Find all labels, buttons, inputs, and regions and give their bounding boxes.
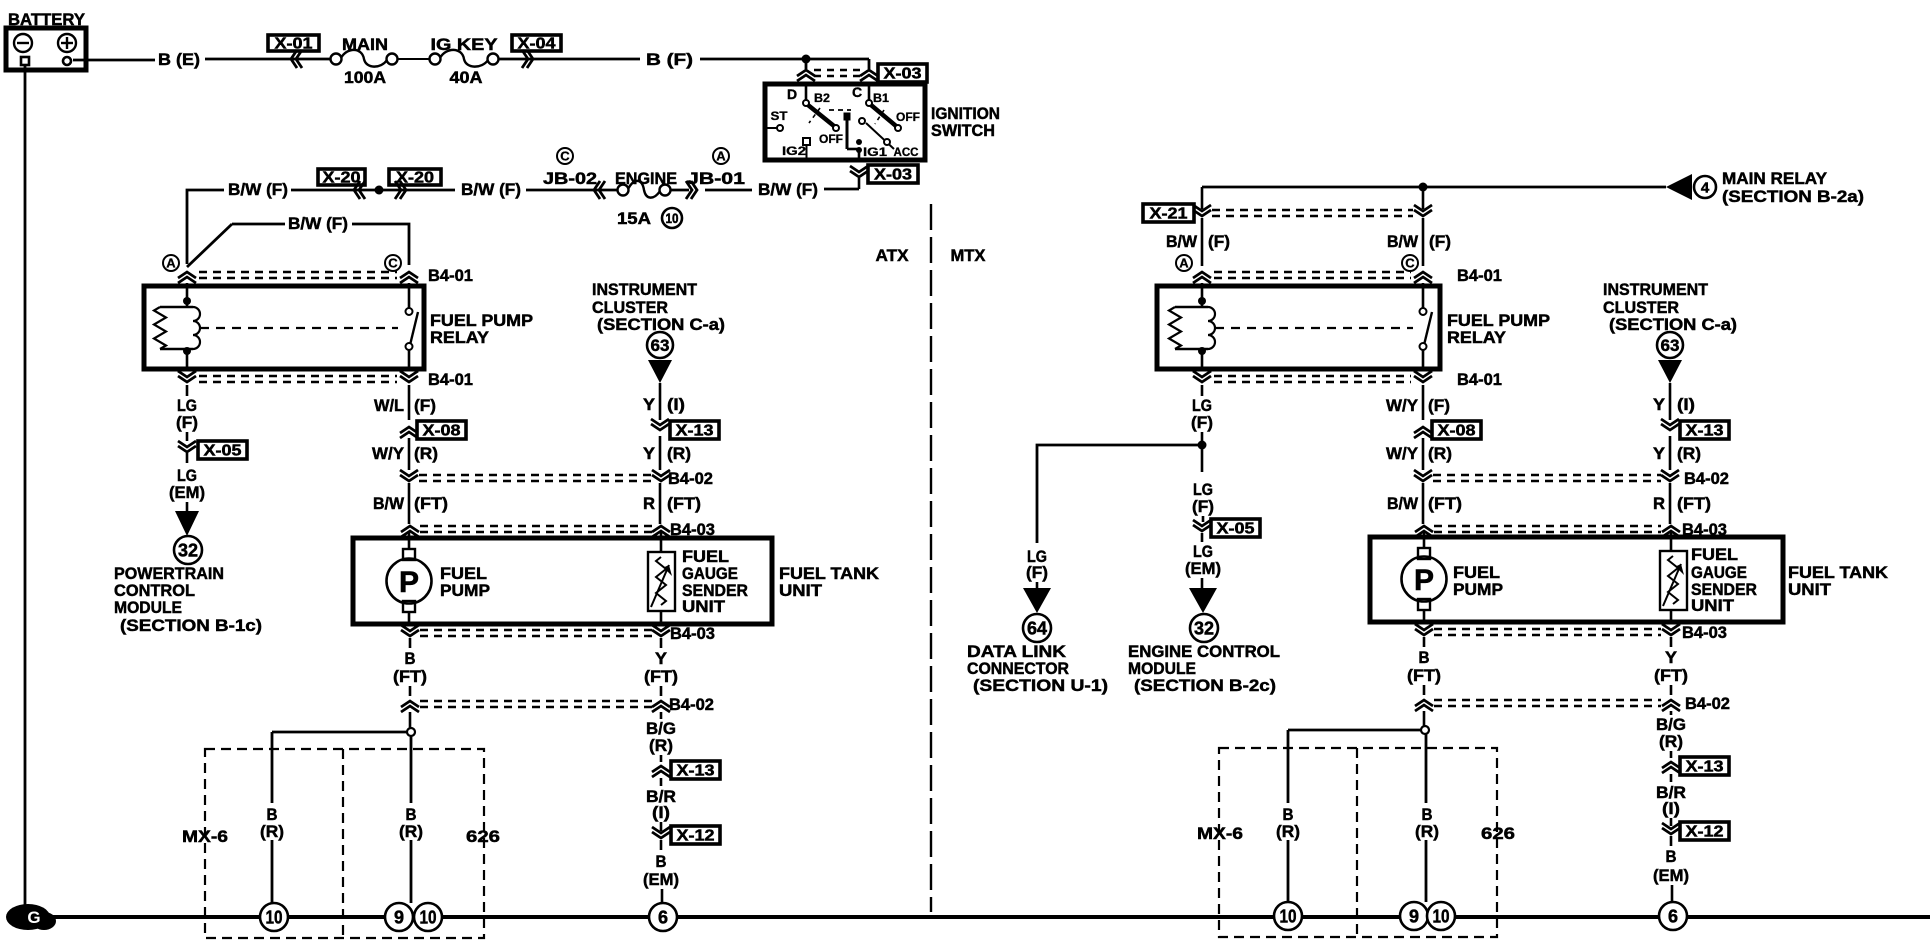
svg-text:X-01: X-01 [275,36,313,53]
svg-text:626: 626 [1481,824,1515,843]
svg-text:X-05: X-05 [204,443,242,460]
wire label W/L (F) [374,396,436,415]
connector B4-02 (right lower) [1415,694,1730,713]
svg-text:B4-01: B4-01 [428,370,473,389]
svg-text:9: 9 [1409,906,1419,926]
svg-text:(SECTION B-2a): (SECTION B-2a) [1722,187,1864,206]
svg-text:SWITCH: SWITCH [931,121,995,140]
svg-text:(R): (R) [399,822,423,841]
wire IG KEY fuse to B (F) [499,58,641,61]
svg-text:B4-01: B4-01 [1457,266,1502,285]
group label MX-6 (left) [182,827,228,846]
fuel gauge sender label (right) [1691,545,1757,615]
svg-text:(FT): (FT) [644,667,678,686]
svg-text:UNIT: UNIT [779,581,823,600]
circled 64 [1023,614,1051,642]
connector X-08 (left) [400,421,466,440]
wire label LG (F) [DLC] [1026,547,1048,582]
svg-text:ACC: ACC [894,145,919,159]
wire B4-02 to B4-03 instrument left [659,483,662,524]
instrument cluster label (left) [592,280,725,334]
svg-text:B (E): B (E) [158,50,200,69]
wire label W/Y (F) right [1386,396,1450,415]
svg-text:40A: 40A [450,68,483,87]
junction node on B (F) [802,55,811,64]
ATX label [876,246,910,265]
connector X-13 (left lower) [652,761,720,780]
svg-text:32: 32 [1194,618,1214,638]
svg-text:(R): (R) [1276,822,1300,841]
group label 626 (left) [466,827,500,846]
wire between fuses [398,58,430,60]
connector B4-01 (left bottom) [178,370,473,389]
group label 626 (right) [1481,824,1515,843]
junction node main relay feed [1419,183,1428,192]
svg-text:(FT): (FT) [1407,666,1441,685]
wire B (EM) to ground circle right [1671,885,1674,901]
main relay label [1722,169,1864,206]
ground symbol G [6,904,56,930]
circled 63 (right) [1657,332,1683,358]
fuel gauge sender label (left) [682,547,748,616]
wire row2 segment [383,189,455,192]
svg-text:W/Y: W/Y [1386,396,1419,415]
wire into tank (pump) left [408,532,411,549]
wire B4-02 to B4-03 instrument right [1669,483,1672,524]
svg-text:(FT): (FT) [1677,494,1711,513]
wire LG (EM) to ECM arrow [1201,578,1204,589]
connector B4-03 (left upper) [401,520,715,539]
connector X-05 (left) [178,441,247,463]
wire B (EM) to ground circle left [661,889,664,903]
wire label B (FT) [393,649,427,686]
wire LG to DLC arrow [1036,582,1039,589]
fuse IG KEY 40A [430,35,499,87]
wire label LG (EM) right [1185,542,1221,578]
arrow to data link connector [1023,588,1051,613]
svg-text:(F): (F) [176,413,198,432]
svg-text:626: 626 [466,827,500,846]
wire label B/W (F) [row2 left] [228,180,288,199]
connector B4-01 (left top) [178,266,473,285]
svg-text:(R): (R) [1428,444,1452,463]
svg-text:FUEL: FUEL [1691,545,1738,564]
connector B4-01 (right top) [1193,266,1502,285]
svg-text:RELAY: RELAY [430,328,490,347]
svg-text:IG2: IG2 [782,144,806,158]
ground circle 6 (left) [649,903,677,931]
group label MX-6 (right) [1197,824,1243,843]
fuel pump motor (right) [1402,548,1447,622]
svg-text:(R): (R) [260,822,284,841]
svg-text:B4-02: B4-02 [1684,469,1729,488]
wire branch left down [271,732,274,903]
svg-text:JB-02: JB-02 [543,169,597,188]
svg-text:W/L: W/L [374,396,404,415]
wire main relay feed [1202,186,1666,189]
wire row2 corner to relay coil [187,190,224,264]
svg-text:B4-02: B4-02 [668,469,713,488]
connector X-12 (left) [652,826,720,850]
wire row2 right segment [705,189,752,192]
svg-text:Y: Y [643,444,656,463]
wire label Y (R) right [1653,444,1701,463]
wire label B/R (I) left [646,787,676,822]
svg-text:(R): (R) [667,444,691,463]
connector X-01 [268,35,319,68]
circled 63 (left) [647,332,673,358]
wire cluster arrow down [659,383,662,420]
svg-text:10: 10 [666,210,679,226]
wire label B (EM) right [1653,847,1689,885]
svg-text:B (F): B (F) [646,50,693,69]
node A marker (left) [163,255,179,271]
svg-text:(FT): (FT) [667,494,701,513]
fuel tank unit label (right) [1788,563,1889,599]
wire label B (E) [158,50,200,69]
fuel pump label (left) [440,564,490,600]
wire cluster arrow down right [1669,383,1672,420]
wire label B/W (F) [row2 right] [758,180,818,199]
wire junction down to ECM column [1201,445,1204,472]
svg-text:JB-01: JB-01 [687,169,745,188]
svg-text:OFF: OFF [896,110,920,124]
fuel tank unit label (left) [779,564,880,600]
svg-text:(I): (I) [652,803,670,822]
wire label LG (F) [ECM] [1192,480,1214,516]
svg-text:B/W: B/W [1387,494,1419,513]
wire label W/Y (R) right [1386,444,1452,463]
svg-text:Y: Y [1665,648,1678,667]
svg-text:B/W: B/W [1387,232,1419,251]
fuel tank unit box (left) [353,538,772,624]
svg-text:(SECTION B-2c): (SECTION B-2c) [1134,676,1276,695]
wire into tank (pump) right [1423,532,1426,548]
connector X-20 pair [318,169,441,199]
connector B4-03 (right lower) [1415,623,1727,642]
ground circles 9 and 10 (left) [385,903,442,931]
svg-text:64: 64 [1027,618,1047,638]
wire down to ignition terminal D [805,59,808,69]
svg-text:32: 32 [178,540,198,560]
wire label B/G (R) left [646,719,676,755]
svg-text:B/W (F): B/W (F) [758,180,818,199]
svg-text:P: P [399,566,419,599]
svg-text:X-13: X-13 [676,423,714,440]
svg-text:B/W: B/W [1166,232,1198,251]
svg-text:C: C [388,256,398,271]
wire label B (FT) right [1407,648,1441,685]
wire label B (R) [right b] [1415,805,1439,841]
wire ignition IG1 output corner [824,188,859,191]
svg-text:X-08: X-08 [1438,423,1476,440]
fuel pump label (right) [1453,563,1503,599]
svg-text:A: A [166,256,176,271]
circled 10 fuse number [662,208,682,228]
wire X-21 to B/W labels [1202,218,1423,240]
svg-text:(FT): (FT) [393,667,427,686]
fuse MAIN 100A [331,35,398,87]
svg-text:10: 10 [1280,906,1297,926]
svg-text:IG KEY: IG KEY [431,35,499,54]
svg-text:B2: B2 [814,91,830,105]
ground circle 6 (right) [1659,902,1687,930]
wire label LG (F) stacked [176,396,198,432]
svg-text:RELAY: RELAY [1447,328,1507,347]
ground circles 9 and 10 (right) [1400,902,1455,930]
wire branch right down (right half) [1425,734,1428,902]
svg-text:B4-02: B4-02 [1685,694,1730,713]
svg-text:(F): (F) [1428,396,1450,415]
fuel gauge sender unit (right) [1660,551,1687,622]
svg-text:X-13: X-13 [677,763,715,780]
node A marker (right) [1176,255,1192,271]
dashed group box MX-6/626 (right) [1219,748,1497,937]
wire B (E) to MAIN fuse [205,58,331,61]
wire label B/R (I) right [1656,783,1686,818]
svg-text:D: D [787,86,797,102]
wire B/G segment left [660,712,663,762]
svg-text:X-21: X-21 [1150,206,1188,223]
circled 32 (right) [1190,614,1218,642]
svg-text:4: 4 [1701,179,1710,196]
wire tank to B (FT) right [1423,637,1426,647]
svg-text:MTX: MTX [951,246,987,265]
svg-text:PUMP: PUMP [1453,580,1503,599]
wire X-13 to B4-02 left [659,436,662,470]
connector X-03 (top) [797,64,927,83]
wire tank to B (FT) [409,638,412,648]
wire label B/W (FT) right [1387,494,1462,513]
connector X-21 [1143,204,1432,223]
wire label Y (I) right [1653,395,1695,414]
wire labels to B4-01 right [1202,240,1423,266]
svg-text:X-03: X-03 [874,167,912,184]
fuel pump relay (left) [144,283,424,369]
svg-text:Y: Y [643,395,656,414]
svg-text:(EM): (EM) [169,483,205,502]
wire label B/W (F) [right switch] [1387,232,1451,251]
svg-text:10: 10 [266,907,283,927]
ground circle 10 (right) [1274,902,1302,930]
wire label Y (FT) [644,649,678,686]
wire label W/Y (R) [372,444,438,463]
svg-text:UNIT: UNIT [1691,596,1735,615]
wire label B/W (F) [row2 mid] [461,180,521,199]
svg-text:15A: 15A [617,209,651,228]
svg-text:(R): (R) [649,736,673,755]
branch node (right) [1421,726,1429,734]
wire label B (F) [646,50,693,69]
svg-text:B4-01: B4-01 [428,266,473,285]
svg-text:B: B [656,852,667,871]
connector B4-02 (right upper) [1414,469,1729,488]
wire relay to X-08 right [1422,385,1425,420]
arrow from main relay [1666,174,1692,200]
svg-text:(F): (F) [1191,413,1213,432]
connector X-13 (left upper) [651,419,719,440]
svg-text:B4-01: B4-01 [1457,370,1502,389]
wire label LG (EM) stacked [169,466,205,502]
dashed group box MX-6/626 (left) [205,749,484,938]
wire relay to LG (F) right [1201,385,1204,396]
svg-text:C: C [1405,256,1415,271]
wire X-08 to B4-02 [408,438,411,470]
svg-text:B: B [1419,648,1430,667]
wire row2 mid segment [526,189,618,192]
wire label Y (FT) right [1654,648,1688,685]
svg-text:X-03: X-03 [884,66,922,83]
svg-text:R: R [643,494,655,513]
svg-text:100A: 100A [344,68,386,87]
svg-text:B1: B1 [873,91,889,105]
connector X-12 (right) [1662,822,1729,846]
wire battery negative down [24,65,27,906]
connector B4-01 (right bottom) [1193,370,1502,389]
ignition switch [765,82,925,162]
svg-text:(F): (F) [1208,232,1230,251]
connector X-03 (bottom) [850,165,918,189]
fuse ENGINE 15A [615,169,689,228]
wire LG to junction right [1201,432,1204,445]
ground bus [46,915,1930,919]
arrow to engine control module [1189,588,1217,613]
wire down to ignition terminal C [868,59,871,69]
connector X-13 (right lower) [1662,757,1729,776]
svg-text:W/Y: W/Y [372,444,405,463]
svg-text:(R): (R) [1415,822,1439,841]
wire junction to DLC corner [1037,445,1202,543]
wire into tank (sender) right [1670,532,1673,551]
wire B4-02 to B4-03 [408,483,411,524]
svg-text:MAIN RELAY: MAIN RELAY [1722,169,1828,188]
wire label Y (R) left [643,444,691,463]
data link connector label [967,642,1108,695]
arrow to powertrain control module [175,511,199,536]
wire LG to X-05 right [1202,516,1205,522]
svg-text:9: 9 [394,907,404,927]
svg-text:X-12: X-12 [1686,824,1724,841]
node C marker (right) [1402,255,1418,271]
svg-text:63: 63 [651,336,670,355]
svg-text:B4-03: B4-03 [1682,623,1727,642]
svg-text:C: C [852,84,862,100]
circled 4 main relay [1694,176,1716,198]
svg-text:(SECTION B-1c): (SECTION B-1c) [120,616,262,635]
svg-text:(F): (F) [414,396,436,415]
svg-text:X-20: X-20 [323,170,361,187]
svg-text:(R): (R) [1659,732,1683,751]
svg-text:B: B [405,649,416,668]
wire label R (FT) right [1653,494,1711,513]
wire label B/W (F) [right coil] [1166,232,1230,251]
svg-text:ST: ST [771,109,789,123]
svg-text:R: R [1653,494,1665,513]
svg-text:X-05: X-05 [1217,521,1255,538]
svg-text:(FT): (FT) [414,494,448,513]
powertrain control module label [114,564,262,635]
connector B4-02 (left lower) [401,695,714,714]
svg-text:10: 10 [1433,906,1450,926]
svg-text:B/W: B/W [373,494,405,513]
wire B (FT) to B4-02 right [1423,685,1426,695]
svg-text:B/W (F): B/W (F) [228,180,288,199]
svg-text:(F): (F) [1429,232,1451,251]
wire X-13 to B/R right [1670,774,1673,782]
wire label LG (F) right stacked [1191,396,1213,432]
wire B/R to X-12 right [1670,818,1673,826]
wire feed down (right switch) [1422,187,1425,209]
svg-text:P: P [1414,564,1434,597]
wire label R (FT) left [643,494,701,513]
svg-text:W/Y: W/Y [1386,444,1419,463]
svg-text:Y: Y [1653,444,1666,463]
svg-text:C: C [560,149,570,164]
connector X-04 [512,35,561,68]
svg-text:(F): (F) [1026,563,1048,582]
wire label B (EM) left [643,852,679,889]
connector X-08 (right) [1414,421,1481,440]
svg-text:10: 10 [420,907,437,927]
wire branch horizontal (left) [272,731,407,734]
wire into tank (sender) left [660,532,663,552]
svg-text:ATX: ATX [876,246,910,265]
svg-text:G: G [27,908,40,927]
wire branch horizontal (right) [1288,729,1421,732]
circled 32 (left) [174,536,202,564]
connector B4-02 (left upper) [400,469,713,488]
svg-text:(EM): (EM) [643,870,679,889]
svg-text:A: A [1179,256,1189,271]
svg-text:PUMP: PUMP [440,581,490,600]
svg-text:(I): (I) [1662,799,1680,818]
node C marker (left) [385,255,401,271]
wire label B/W (F) [row3] [288,214,348,233]
connector B4-03 (left lower) [401,624,715,643]
wire LG (EM) to PCM arrow [186,502,189,512]
svg-text:X-12: X-12 [677,828,715,845]
fuel pump relay (left) label [430,311,533,347]
svg-text:OFF: OFF [819,132,843,146]
svg-text:Y: Y [655,649,668,668]
ignition switch name label [931,104,1000,140]
svg-text:B4-03: B4-03 [670,624,715,643]
wire B/G segment right [1670,711,1673,758]
junction node LG (right) [1198,441,1207,450]
wire relay to X-05 [186,385,189,396]
svg-text:Y: Y [1653,395,1666,414]
svg-text:(F): (F) [1192,497,1214,516]
connector B4-03 (right upper) [1415,520,1727,539]
wire label B/G (R) right [1656,715,1686,751]
wire branch left down (right half) [1287,730,1290,902]
wire X-13 to B4-02 right instrument [1669,436,1672,470]
svg-text:(EM): (EM) [1185,559,1221,578]
svg-text:A: A [716,149,726,164]
connector JB-02 [543,148,605,199]
fuel pump motor (left) [387,549,432,624]
wire label B (R) [left b] [399,805,423,841]
fuel tank unit box (right) [1370,537,1783,622]
svg-text:(FT): (FT) [1654,666,1688,685]
connector JB-01 [686,148,745,199]
wire label B (R) [right a] [1276,805,1300,841]
wire B4-02 down to branch node right [1423,711,1426,726]
svg-text:X-08: X-08 [423,423,461,440]
wire label B (R) [left a] [260,805,284,841]
wire Y (FT) segments right [1670,637,1673,695]
wire row3 right + corner down [352,224,409,265]
